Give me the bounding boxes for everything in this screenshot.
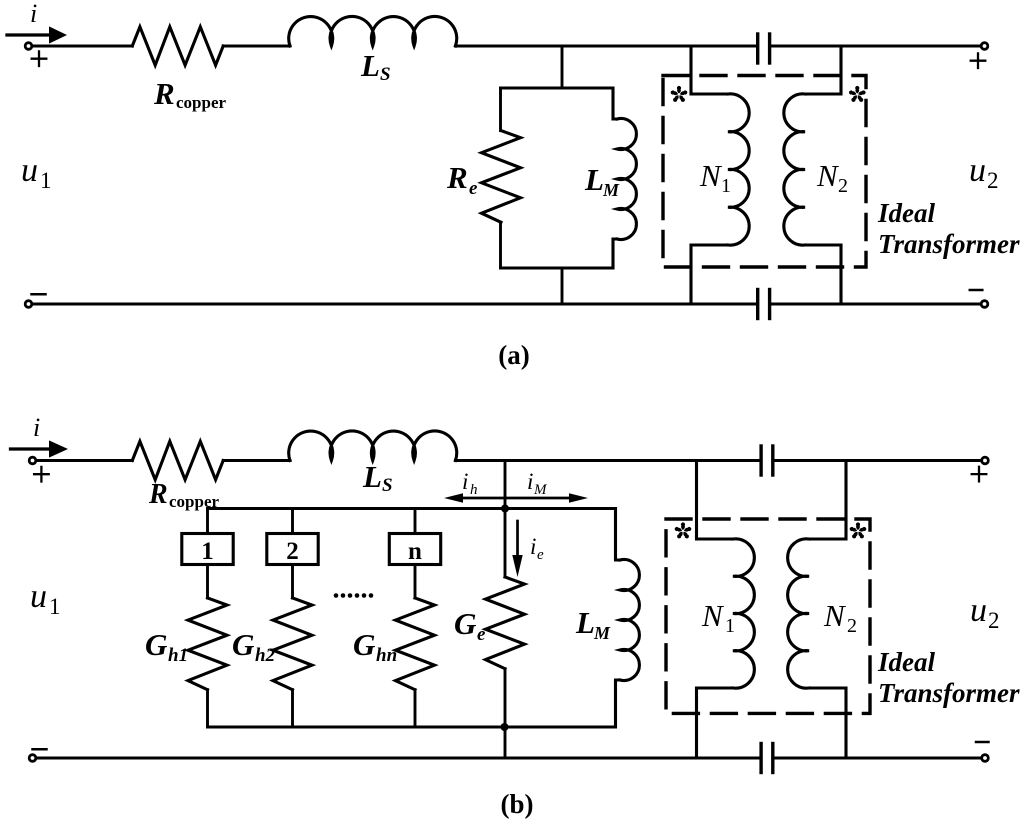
svg-text:1: 1 xyxy=(40,168,52,193)
svg-text:M: M xyxy=(602,180,620,200)
terminal bottom-right (b) xyxy=(982,755,989,762)
dot marking asterisk right (a) xyxy=(849,86,867,103)
wire top (b) Ls to capacitor xyxy=(455,459,759,462)
svg-text:2: 2 xyxy=(987,168,999,193)
harmonic source box 2 (b) xyxy=(267,534,318,565)
current arrow ih (b) xyxy=(444,493,505,503)
svg-text:L: L xyxy=(575,605,595,640)
svg-text:u: u xyxy=(970,592,987,629)
harmonic source box 1 (b) xyxy=(182,534,233,565)
svg-text:h: h xyxy=(470,482,478,498)
junction node top (b) xyxy=(501,505,509,513)
current arrow iM (b) xyxy=(507,493,588,503)
capacitor bottom (b) xyxy=(761,744,773,773)
resistor Rcopper (b) xyxy=(132,441,223,479)
svg-text:e: e xyxy=(477,624,486,645)
svg-text:2: 2 xyxy=(988,608,1000,633)
svg-text:G: G xyxy=(145,627,168,662)
svg-text:Transformer: Transformer xyxy=(878,678,1020,708)
wire Ge to bottom bus (b) xyxy=(504,669,507,758)
svg-text:u: u xyxy=(969,152,986,189)
wire top edge of Re/Lm block (a) xyxy=(501,87,614,90)
polarity minus bottom-left (b) xyxy=(33,748,47,751)
svg-text:u: u xyxy=(30,578,47,615)
wire top (a) Ls to capacitor xyxy=(455,45,756,48)
dashed box ideal transformer (b) xyxy=(666,519,870,713)
branch 1 middle lead (b) xyxy=(206,565,209,599)
svg-text:L: L xyxy=(360,48,380,83)
svg-text:S: S xyxy=(380,64,391,85)
svg-text:L: L xyxy=(584,162,604,197)
label Ideal Transformer (b) xyxy=(877,647,1020,708)
svg-text:Ideal: Ideal xyxy=(877,198,935,228)
inductor Ls (a) xyxy=(289,16,457,46)
dot marking asterisk left (a) xyxy=(670,86,688,103)
svg-text:h2: h2 xyxy=(255,645,276,666)
polarity + top-left (a) xyxy=(32,51,47,66)
inductor Ls (b) xyxy=(289,431,457,461)
capacitor top (b) xyxy=(761,446,773,475)
terminal bottom-right (a) xyxy=(981,301,988,308)
branch n top lead (b) xyxy=(414,509,417,534)
capacitor bottom (a) xyxy=(758,290,770,319)
polarity + top-right (b) xyxy=(972,467,987,482)
svg-text:N: N xyxy=(701,598,725,633)
winding N2 (b) xyxy=(788,461,846,759)
svg-text:N: N xyxy=(823,598,847,633)
svg-text:hn: hn xyxy=(376,645,397,666)
current arrow ie (b) xyxy=(512,521,522,577)
resistor Rcopper (a) xyxy=(132,27,223,65)
capacitor top (a) xyxy=(758,34,770,63)
junction node bottom (b) xyxy=(501,723,509,731)
svg-text:2: 2 xyxy=(838,175,848,197)
terminal top-left (b) xyxy=(29,457,36,464)
current arrow i (b) xyxy=(11,440,69,457)
svg-text:2: 2 xyxy=(847,615,857,637)
ellipsis dots between branches (b) xyxy=(334,593,374,598)
svg-text:i: i xyxy=(30,0,37,28)
polarity + top-left (b) xyxy=(34,467,49,482)
svg-text:N: N xyxy=(816,158,840,193)
svg-text:R: R xyxy=(153,76,175,111)
svg-text:n: n xyxy=(408,538,422,565)
branch 2 middle lead (b) xyxy=(291,565,294,599)
inductor Lm (a) with leads xyxy=(613,88,636,268)
dot marking asterisk right (b) xyxy=(849,522,867,539)
svg-text:N: N xyxy=(699,158,723,193)
winding N1 (a) xyxy=(691,46,749,304)
svg-text:Transformer: Transformer xyxy=(878,229,1020,259)
svg-text:2: 2 xyxy=(286,538,299,565)
svg-text:G: G xyxy=(353,627,376,662)
wire node vertical to Re/Lm (a) xyxy=(561,46,564,88)
svg-text:1: 1 xyxy=(721,175,731,197)
svg-text:R: R xyxy=(446,160,468,195)
svg-text:G: G xyxy=(232,627,255,662)
svg-text:R: R xyxy=(148,479,168,510)
wire bottom (b) right segment xyxy=(775,757,982,760)
harmonic top bus (b) xyxy=(208,507,616,510)
resistor Re (a) with leads xyxy=(482,88,521,268)
svg-text:1: 1 xyxy=(201,538,214,565)
svg-text:1: 1 xyxy=(49,594,61,619)
branch 1 top lead (b) xyxy=(206,509,209,534)
branch n bottom lead (b) xyxy=(414,690,417,727)
polarity minus bottom-right (b) xyxy=(976,741,989,744)
svg-text:S: S xyxy=(382,475,393,496)
wire top (a) right segment xyxy=(771,45,981,48)
wire between Rcopper and Ls (a) xyxy=(223,45,290,48)
svg-text:(a): (a) xyxy=(498,340,529,370)
wire bottom (a) right segment xyxy=(771,303,981,306)
harmonic bottom bus (b) xyxy=(208,726,616,729)
svg-text:i: i xyxy=(530,534,536,559)
inductor Lm (b) with leads xyxy=(616,509,640,728)
svg-text:(b): (b) xyxy=(501,789,534,819)
terminal bottom-left (b) xyxy=(29,755,36,762)
svg-text:e: e xyxy=(469,178,478,199)
polarity minus bottom-left (a) xyxy=(32,293,46,296)
wire main node vertical with Ge branch (b) xyxy=(504,461,507,578)
wire top (a) left segment xyxy=(32,45,132,48)
resistor Ghn (b) xyxy=(396,598,435,690)
resistor Ge (b) xyxy=(486,577,525,669)
branch n middle lead (b) xyxy=(414,565,417,599)
terminal top-right (b) xyxy=(982,457,989,464)
wire top (b) right segment xyxy=(775,459,982,462)
svg-text:M: M xyxy=(533,482,548,498)
branch 2 bottom lead (b) xyxy=(291,690,294,727)
wire bottom edge of Re/Lm block (a) xyxy=(501,267,614,270)
current arrow i (a) xyxy=(7,26,67,43)
dashed box ideal transformer (a) xyxy=(663,76,866,268)
svg-text:h1: h1 xyxy=(168,645,188,666)
svg-text:u: u xyxy=(21,152,38,189)
terminal bottom-left (a) xyxy=(25,301,32,308)
wire bottom (a) left segment xyxy=(32,303,756,306)
winding N2 (a) xyxy=(784,46,841,304)
wire Re/Lm block to bottom bus (a) xyxy=(561,268,564,304)
svg-text:i: i xyxy=(33,413,40,442)
svg-text:1: 1 xyxy=(725,615,735,637)
svg-text:M: M xyxy=(593,623,611,643)
terminal top-left (a) xyxy=(25,43,32,50)
dot marking asterisk left (b) xyxy=(674,522,692,539)
svg-text:G: G xyxy=(454,606,477,641)
branch 2 top lead (b) xyxy=(291,509,294,534)
branch 1 bottom lead (b) xyxy=(206,690,209,727)
winding N1 (b) xyxy=(697,461,755,759)
resistor Gh2 (b) xyxy=(273,598,312,690)
svg-text:i: i xyxy=(462,469,468,494)
svg-text:copper: copper xyxy=(176,93,227,112)
terminal top-right (a) xyxy=(981,43,988,50)
resistor Gh1 (b) xyxy=(188,598,227,690)
harmonic source box n (b) xyxy=(389,534,440,565)
svg-text:Ideal: Ideal xyxy=(877,647,935,677)
polarity minus bottom-right (a) xyxy=(970,289,983,292)
svg-text:i: i xyxy=(527,469,533,494)
wire between Rcopper and Ls (b) xyxy=(223,459,290,462)
label Ideal Transformer (a) xyxy=(877,198,1020,259)
polarity + top-right (a) xyxy=(971,53,986,68)
wire bottom (b) left segment xyxy=(36,757,759,760)
wire top (b) left segment xyxy=(36,459,132,462)
svg-text:e: e xyxy=(537,547,544,563)
svg-text:L: L xyxy=(362,459,382,494)
